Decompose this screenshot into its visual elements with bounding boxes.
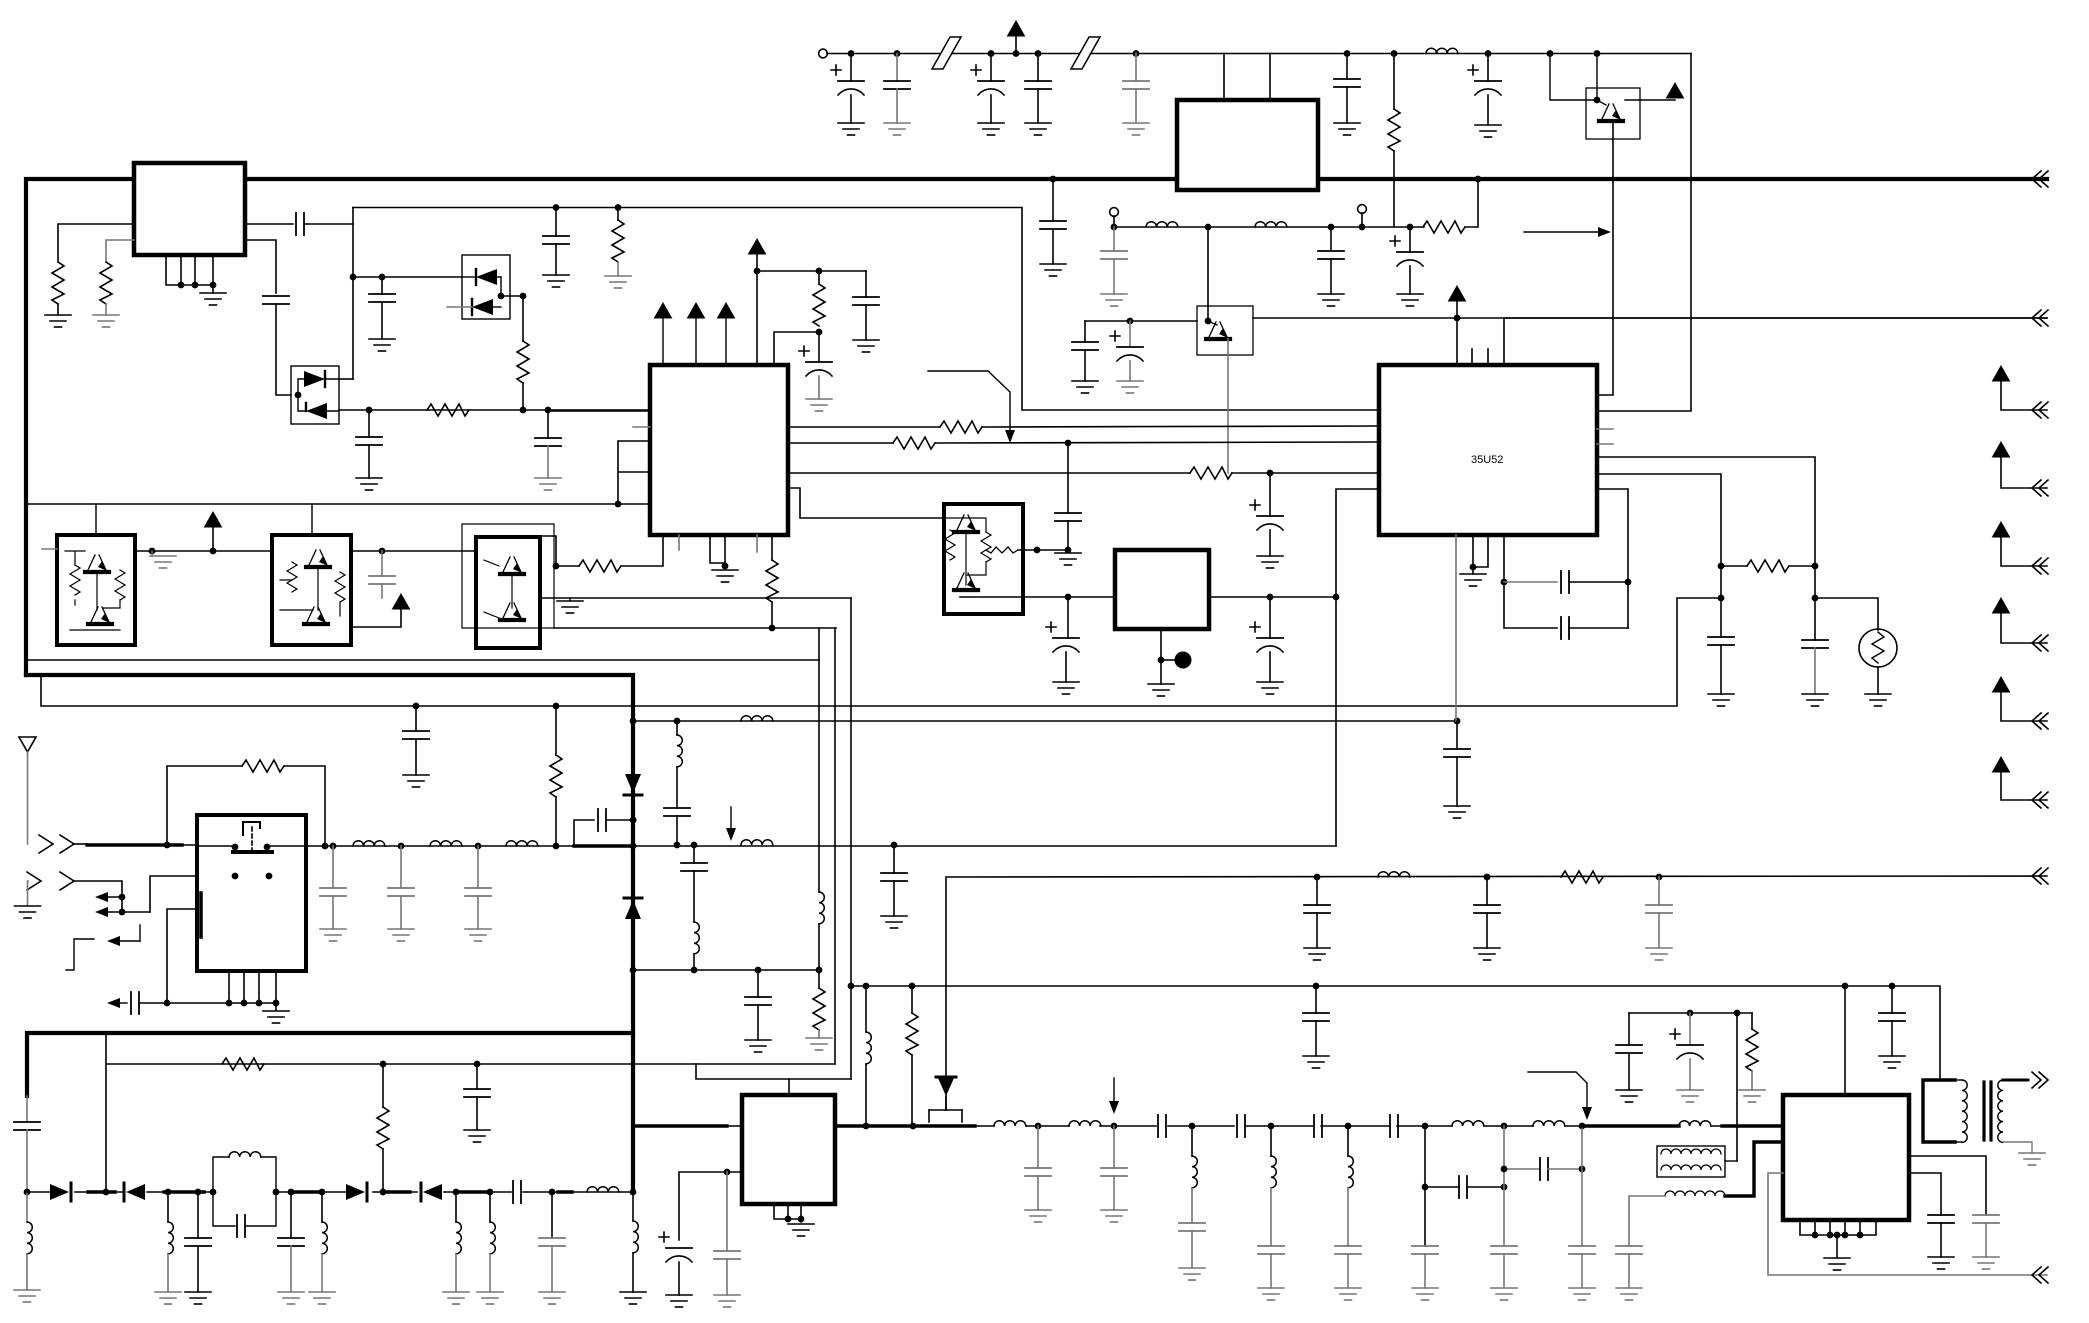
junction xyxy=(691,842,698,849)
junction xyxy=(1594,50,1601,57)
wire U4 bottom pin x1456 xyxy=(1455,535,1457,721)
wire TB3 internals xyxy=(484,560,512,618)
capacitor C61 xyxy=(1258,1246,1284,1254)
wire T2 bottom thick to U7 pin2 xyxy=(1725,1142,1783,1196)
junction xyxy=(322,843,329,850)
connector chevron xyxy=(2032,868,2048,884)
capacitor C59 xyxy=(1179,1223,1205,1231)
ground xyxy=(1928,1257,1954,1269)
resistor R12 xyxy=(579,560,621,572)
capacitor C48 xyxy=(197,1192,199,1238)
capacitor C16 polarized xyxy=(1487,54,1489,82)
junction xyxy=(1842,1232,1849,1239)
junction xyxy=(1812,1232,1819,1239)
junction xyxy=(785,1216,792,1223)
resistor R1 xyxy=(52,262,64,304)
inductor L19 xyxy=(587,1187,619,1192)
wire input xyxy=(74,843,87,845)
wire pi filter column x677 xyxy=(676,721,678,735)
ground xyxy=(1460,574,1486,586)
svg-text:35U52: 35U52 xyxy=(1471,454,1503,466)
junction xyxy=(1205,224,1212,231)
junction xyxy=(475,843,482,850)
ground xyxy=(1475,125,1501,137)
resistor R23 xyxy=(1751,1013,1753,1029)
junction xyxy=(149,548,156,555)
wire U2 pin2 to R2 xyxy=(106,240,134,262)
wire x27 column xyxy=(26,1096,28,1122)
junction xyxy=(1889,983,1896,990)
junction xyxy=(848,50,855,57)
connector chevron xyxy=(2032,792,2048,808)
transistor Q9 xyxy=(500,603,524,620)
capacitor C34 series xyxy=(1561,571,1569,593)
ground xyxy=(1025,123,1051,135)
wire U2 pin down into series cap C7 xyxy=(245,240,276,293)
connector chevron in 2 xyxy=(27,872,74,890)
inductor L5 xyxy=(741,716,773,721)
resistor R20 column xyxy=(382,1064,384,1107)
wire C34b to x1628 xyxy=(1569,627,1628,629)
junction xyxy=(413,703,420,710)
capacitor C55 polarized xyxy=(659,1232,692,1262)
wire D1 out down to R4 xyxy=(522,296,524,341)
junction xyxy=(164,1000,171,1007)
ground xyxy=(1304,948,1330,960)
power arrow P2 xyxy=(1993,442,2010,457)
wire U1 pin y488 elbow to TB2 xyxy=(788,488,944,518)
junction xyxy=(816,268,823,275)
junction xyxy=(1127,318,1134,325)
junction xyxy=(1547,50,1554,57)
wire Q3 collector down xyxy=(1227,339,1229,473)
wire net y317 to right chevron xyxy=(1253,317,2047,319)
ground xyxy=(1335,1288,1361,1300)
transistor Q6 xyxy=(306,550,330,567)
junction xyxy=(1407,224,1414,231)
capacitor C51 series xyxy=(513,1181,521,1203)
capacitor C37 xyxy=(332,846,334,888)
ground xyxy=(1123,123,1149,135)
transformer T2 bottom winding xyxy=(1665,1191,1725,1196)
wire x1582 down xyxy=(1581,1126,1583,1246)
junction xyxy=(103,1189,110,1196)
arrow left 1 xyxy=(105,896,122,898)
ground xyxy=(1303,1056,1329,1068)
junction xyxy=(1625,579,1632,586)
wire node to lamp xyxy=(1815,598,1878,630)
capacitor C17 xyxy=(1052,179,1054,221)
capacitor C24 xyxy=(865,271,867,297)
junction xyxy=(380,1061,387,1068)
junction xyxy=(1812,595,1819,602)
capacitor C13 xyxy=(1037,54,1039,82)
capacitor C30 xyxy=(1486,877,1488,905)
junction xyxy=(1035,1123,1042,1130)
ground xyxy=(1025,1210,1051,1222)
inductor L26 column xyxy=(1347,1126,1349,1156)
junction xyxy=(988,50,995,57)
capacitor C71 xyxy=(1891,986,1893,1013)
junction xyxy=(1812,563,1819,570)
arrow pointer elbow xyxy=(1528,1072,1587,1109)
inductor L17 xyxy=(455,1192,457,1222)
resistor Q4 bias xyxy=(74,560,76,605)
ground xyxy=(1257,556,1283,568)
wire pin x663 to R12 xyxy=(621,535,663,566)
ground xyxy=(539,1292,565,1304)
ground xyxy=(388,929,414,941)
wire U4 bottom pins gnd xyxy=(1473,535,1488,574)
wire U7 right pin y1156 xyxy=(1909,1156,1986,1215)
capacitor C56 xyxy=(1037,1126,1039,1168)
capacitor C62 series xyxy=(1314,1115,1322,1137)
junction xyxy=(553,204,560,211)
ground xyxy=(806,1038,832,1050)
junction xyxy=(1189,1123,1196,1130)
bus VCC thick left xyxy=(26,179,1177,675)
junction xyxy=(615,501,622,508)
wire R14 left node down xyxy=(1720,566,1722,637)
junction xyxy=(1718,595,1725,602)
diode D1b xyxy=(472,299,493,315)
junction xyxy=(1065,594,1072,601)
wire Q2 collector down to U4 pin xyxy=(1597,121,1613,395)
wire net y628 xyxy=(554,627,836,629)
inductor L18 xyxy=(489,1192,491,1222)
junction xyxy=(1857,1232,1864,1239)
wire U6 out thick xyxy=(835,1124,975,1127)
junction xyxy=(1656,874,1663,881)
junction xyxy=(273,1000,280,1007)
junction xyxy=(1313,983,1320,990)
ground xyxy=(1257,682,1283,694)
resistor R19 out of TB2 xyxy=(986,547,1018,553)
junction xyxy=(1734,1010,1741,1017)
capacitor C9 xyxy=(547,410,549,438)
junction xyxy=(1267,470,1274,477)
ground xyxy=(185,1292,211,1304)
junction xyxy=(1470,564,1477,571)
wire x1504 down xyxy=(1503,1126,1505,1246)
junction xyxy=(630,967,637,974)
junction xyxy=(798,1216,805,1223)
junction xyxy=(1827,1232,1834,1239)
capacitor C58 series xyxy=(1158,1115,1166,1137)
ground xyxy=(356,478,382,490)
capacitor C32 xyxy=(415,706,417,731)
wire net y207 to corner 1022 xyxy=(353,208,1379,411)
junction xyxy=(674,842,681,849)
capacitor C68 series bypass xyxy=(1504,1168,1539,1170)
capacitor C6 xyxy=(381,277,383,294)
ground xyxy=(557,601,583,613)
junction xyxy=(226,1000,233,1007)
diode D5 on x633 xyxy=(625,900,641,919)
ground xyxy=(93,315,119,327)
capacitor C53 xyxy=(476,1064,478,1089)
pin stub right y429 xyxy=(1597,428,1613,430)
power arrow xyxy=(393,594,410,609)
pin arrow 3 xyxy=(725,318,727,365)
resistor R11 xyxy=(1190,467,1232,479)
wire U7 top pin xyxy=(1844,986,1846,1095)
capacitor C69 xyxy=(1569,1246,1595,1254)
junction xyxy=(630,1189,637,1196)
junction xyxy=(630,817,637,824)
fuse F2 xyxy=(1071,37,1100,69)
ground xyxy=(1412,1288,1438,1300)
arrow left 2 xyxy=(105,911,150,913)
power arrow VDD xyxy=(749,239,766,254)
wire x106 up to net y1064 xyxy=(105,1035,107,1192)
wire TB5 top pin stub xyxy=(311,504,313,535)
wire arrow to pin xyxy=(1456,301,1458,365)
capacitor C22 polarized xyxy=(1129,321,1131,347)
junction xyxy=(380,1189,387,1196)
connector chevron xyxy=(2032,1267,2048,1283)
capacitor C25 polarized xyxy=(1269,473,1271,516)
capacitor C4 series xyxy=(296,213,304,235)
junction xyxy=(553,843,560,850)
diode pair box D2 xyxy=(291,366,339,424)
ground xyxy=(1053,682,1079,694)
inductor L2 xyxy=(1146,222,1178,227)
capacitor C19 xyxy=(1330,227,1332,251)
wire loop to tuner left pin xyxy=(167,909,197,1003)
ground xyxy=(1072,381,1098,393)
junction xyxy=(1065,440,1072,447)
diode D9 xyxy=(423,1184,442,1200)
capacitor C66 series bypass xyxy=(1425,1186,1458,1188)
capacitor C70 xyxy=(1315,986,1317,1013)
pin stub right y444 xyxy=(1597,443,1613,445)
junction xyxy=(164,842,171,849)
wire U4 lower left pin via x1336 xyxy=(1336,489,1379,846)
junction xyxy=(545,407,552,414)
ground xyxy=(788,1224,814,1236)
wire thick to U7 xyxy=(1722,1124,1783,1127)
wire TB2 bottom out y597 xyxy=(960,596,1115,598)
diode D6 xyxy=(50,1184,69,1200)
inductor L28 xyxy=(1533,1121,1565,1126)
resistor R4 xyxy=(517,341,529,383)
wire net y1064 xyxy=(106,1063,835,1065)
capacitor C41 xyxy=(664,808,690,816)
wire U2 right pin xyxy=(245,223,293,225)
wire VDD node xyxy=(756,254,758,365)
capacitor C49 series xyxy=(237,1215,245,1237)
resistor R14 xyxy=(1721,565,1815,567)
fuse F1 xyxy=(932,37,961,69)
wire U2 bottom pins xyxy=(166,256,213,293)
resistor R5 xyxy=(427,404,469,416)
capacitor C44 xyxy=(757,970,759,997)
inductor L4 xyxy=(1378,872,1410,877)
wire C26 node chain xyxy=(1067,443,1069,513)
ground xyxy=(712,570,738,582)
wire U4 bottom pin x1504 xyxy=(1504,535,1557,628)
thick drop to IC F xyxy=(631,1033,635,1192)
capacitor C36 series xyxy=(131,992,139,1014)
junction xyxy=(1268,1123,1275,1130)
pin stub U1 left xyxy=(633,426,650,428)
wire TB2 internals xyxy=(944,518,986,585)
capacitor C50 xyxy=(290,1192,292,1238)
IC U3 xyxy=(1177,100,1318,190)
junction xyxy=(487,1189,494,1196)
ground xyxy=(1040,264,1066,276)
wire net y411 to U1 xyxy=(548,410,650,412)
junction xyxy=(549,1189,556,1196)
ground xyxy=(45,315,71,327)
wire TB5 out right xyxy=(351,550,476,552)
wire pi filter column x694 xyxy=(693,845,695,863)
inductor L15 xyxy=(229,1152,261,1157)
resistor R15 xyxy=(1561,871,1603,883)
ground xyxy=(150,556,176,568)
ground xyxy=(1101,1210,1127,1222)
inductor L27 xyxy=(1452,1121,1484,1126)
ground xyxy=(1973,1257,1999,1269)
wire net y1013 xyxy=(1629,1012,1752,1014)
wire IC B top pin 1 xyxy=(1223,54,1225,101)
transistor Q3 xyxy=(1206,322,1230,339)
capacitor C8 xyxy=(368,410,370,437)
shield bar xyxy=(199,893,203,937)
resistor R3 xyxy=(617,208,619,221)
junction xyxy=(630,843,637,850)
wire net y321 left part xyxy=(1085,320,1197,322)
wire TB1 internals xyxy=(65,551,120,630)
terminal J1 xyxy=(819,49,828,58)
lamp thermistor TH1 xyxy=(1859,629,1897,667)
ground xyxy=(1258,1288,1284,1300)
ground xyxy=(884,123,910,135)
junction xyxy=(350,274,357,281)
IC U5 xyxy=(1115,550,1209,629)
ground xyxy=(1616,1288,1642,1300)
junction xyxy=(910,1123,917,1130)
wire net y875 xyxy=(946,876,2047,1110)
inductor L25 column xyxy=(1270,1126,1272,1156)
wire R10 to U4 xyxy=(935,442,1379,443)
junction xyxy=(192,282,199,289)
wire tuner internal xyxy=(197,845,306,847)
wire corner to C73 xyxy=(1628,1013,1630,1045)
inductor L10 xyxy=(741,840,773,845)
wire C7 to diode box D2 xyxy=(276,304,291,395)
junction xyxy=(1454,718,1461,725)
junction xyxy=(1359,224,1366,231)
wire Q2 base feed xyxy=(1550,54,1597,101)
junction xyxy=(273,1189,280,1196)
wire top chain y53 xyxy=(827,53,1691,55)
junction xyxy=(330,843,337,850)
capacitor C60 series xyxy=(1237,1115,1245,1137)
capacitor C67 xyxy=(1491,1246,1517,1254)
wire y582 link xyxy=(1504,581,1557,583)
wire x835 vertical y628 to y1064 xyxy=(834,628,836,1064)
wire main chain y1192 xyxy=(27,1191,633,1193)
ground xyxy=(535,478,561,490)
terminal J2 xyxy=(1110,208,1119,217)
inductor L6 xyxy=(353,841,385,846)
transistor Q4 xyxy=(85,555,109,572)
ground xyxy=(881,916,907,928)
capacitor C31 xyxy=(1658,877,1660,905)
column x819 inductor L12 xyxy=(818,628,820,892)
ground xyxy=(1708,694,1734,706)
resistor R8 xyxy=(818,271,820,284)
junction xyxy=(1422,1123,1429,1130)
arrow left 3 xyxy=(117,940,140,942)
wire TB5 internals xyxy=(280,568,340,616)
capacitor C76 xyxy=(1928,1215,1954,1223)
node D2 in xyxy=(295,392,302,399)
ground xyxy=(14,1290,40,1302)
pin arrow 1 xyxy=(662,318,664,365)
junction xyxy=(1484,874,1491,881)
arrow pointer down xyxy=(730,807,732,830)
ground xyxy=(1101,294,1127,306)
diode D8 xyxy=(346,1184,365,1200)
junction xyxy=(553,703,560,710)
wire U4 pin y457 to R14 right node xyxy=(1597,457,1815,566)
resistor Q7 bias xyxy=(335,572,345,602)
junction xyxy=(474,1061,481,1068)
ground xyxy=(806,399,832,411)
capacitor C23 polarized xyxy=(818,332,820,362)
IC U7 xyxy=(1783,1095,1909,1220)
wire D1 internal link xyxy=(501,277,523,296)
junction xyxy=(769,625,776,632)
wire R11 to U4 xyxy=(1232,472,1379,474)
ground xyxy=(1179,1268,1205,1280)
wire TB3 out y598 xyxy=(540,597,851,599)
inductor L3 xyxy=(1255,222,1287,227)
T3 secondary winding xyxy=(1998,1080,2003,1142)
power arrow P3 xyxy=(1993,522,2010,537)
wire R16 to output node xyxy=(284,766,325,846)
junction xyxy=(1344,50,1351,57)
T3 core xyxy=(1982,1082,1985,1140)
inductor L23 xyxy=(1069,1121,1101,1126)
resistor R6 xyxy=(1393,54,1395,110)
ground xyxy=(1616,1090,1642,1102)
junction xyxy=(1579,1166,1586,1173)
wire Q3 base vertical xyxy=(1207,227,1209,321)
junction xyxy=(1687,1010,1694,1017)
wire VDD to R8 C23 xyxy=(757,270,866,272)
wire U2 left pin to R1 xyxy=(58,224,134,262)
junction xyxy=(691,967,698,974)
junction xyxy=(1485,50,1492,57)
wire TB1 top pin stub xyxy=(95,504,97,535)
transistor Q10 xyxy=(954,515,978,532)
wire thick to U6 xyxy=(633,1124,727,1127)
junction xyxy=(1501,579,1508,586)
wire U1 right pin y473 xyxy=(788,472,1190,474)
transistor Q7 xyxy=(304,607,328,624)
inductor L16 xyxy=(321,1192,323,1222)
ground xyxy=(15,906,41,918)
junction xyxy=(119,909,126,916)
capacitor C40 series branch xyxy=(574,820,594,846)
tuner box xyxy=(197,815,306,971)
inductor L14 xyxy=(167,1192,169,1222)
junction xyxy=(256,1000,263,1007)
